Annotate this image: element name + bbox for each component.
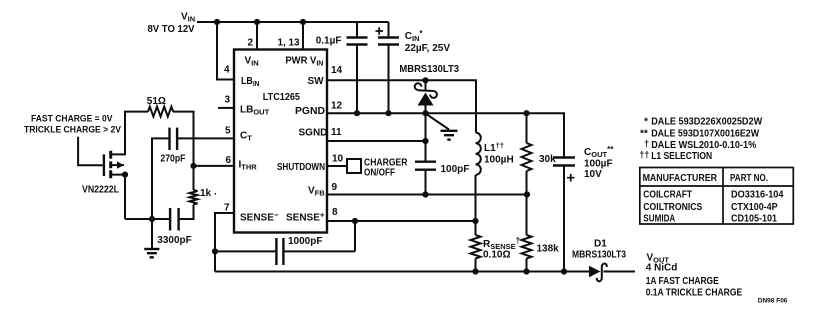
svg-text:100pF: 100pF — [441, 164, 470, 175]
svg-text:ON/OFF: ON/OFF — [364, 167, 395, 178]
svg-text:MBRS130LT3: MBRS130LT3 — [572, 250, 626, 261]
svg-text:4 NiCd: 4 NiCd — [646, 263, 678, 274]
svg-text:138k: 138k — [537, 244, 560, 255]
svg-text:SGND: SGND — [299, 128, 328, 139]
svg-text:SENSE+: SENSE+ — [286, 211, 325, 224]
svg-text:6: 6 — [226, 155, 232, 166]
svg-text:11: 11 — [331, 127, 342, 138]
svg-text:FAST CHARGE = 0V: FAST CHARGE = 0V — [31, 114, 113, 125]
svg-text:1A FAST CHARGE: 1A FAST CHARGE — [646, 276, 719, 287]
svg-text:1, 13: 1, 13 — [278, 38, 300, 49]
svg-text:22µF, 25V: 22µF, 25V — [405, 43, 451, 54]
svg-text:PART NO.: PART NO. — [730, 172, 768, 184]
svg-text:14: 14 — [331, 65, 343, 76]
svg-text:0.1A TRICKLE CHARGE: 0.1A TRICKLE CHARGE — [646, 288, 743, 299]
svg-text:1000pF: 1000pF — [288, 236, 322, 247]
svg-text:SENSE−: SENSE− — [240, 211, 279, 224]
svg-text:††: †† — [639, 149, 649, 159]
svg-text:7: 7 — [224, 203, 230, 214]
svg-text:SHUTDOWN: SHUTDOWN — [277, 162, 325, 173]
svg-text:DALE 593D226X0025D2W: DALE 593D226X0025D2W — [651, 116, 762, 128]
svg-text:COILTRONICS: COILTRONICS — [643, 201, 702, 213]
svg-text:VN2222L: VN2222L — [82, 185, 119, 196]
svg-text:10: 10 — [332, 154, 344, 165]
svg-text:PGND: PGND — [295, 106, 325, 117]
svg-text:†: † — [644, 139, 649, 149]
svg-text:CTX100-4P: CTX100-4P — [731, 201, 778, 213]
svg-text:*: * — [644, 117, 648, 128]
svg-text:5: 5 — [225, 126, 231, 137]
svg-text:0.1µF: 0.1µF — [316, 36, 342, 47]
svg-text:3: 3 — [225, 95, 231, 106]
svg-text:100µF: 100µF — [584, 159, 613, 170]
svg-text:SUMIDA: SUMIDA — [643, 213, 675, 225]
svg-text:1k: 1k — [200, 188, 212, 199]
svg-text:TRICKLE CHARGE > 2V: TRICKLE CHARGE > 2V — [24, 125, 122, 136]
svg-text:L1 SELECTION: L1 SELECTION — [651, 150, 712, 162]
svg-text:MBRS130LT3: MBRS130LT3 — [399, 64, 459, 75]
svg-text:.: . — [214, 187, 217, 198]
svg-text:3300pF: 3300pF — [157, 235, 191, 246]
svg-text:30k: 30k — [539, 154, 556, 165]
svg-text:DN98 F06: DN98 F06 — [758, 298, 788, 305]
svg-text:12: 12 — [331, 101, 343, 112]
svg-text:0.10Ω: 0.10Ω — [483, 250, 510, 261]
svg-text:LTC1265: LTC1265 — [263, 92, 301, 103]
svg-text:2: 2 — [248, 38, 254, 49]
svg-text:270pF: 270pF — [160, 154, 185, 165]
svg-text:DO3316-104: DO3316-104 — [731, 188, 784, 200]
svg-text:8V TO 12V: 8V TO 12V — [148, 24, 195, 35]
svg-text:10V: 10V — [584, 169, 602, 180]
svg-text:9: 9 — [332, 182, 338, 193]
svg-text:MANUFACTURER: MANUFACTURER — [643, 172, 718, 184]
svg-text:100µH: 100µH — [484, 155, 514, 166]
svg-text:SW: SW — [308, 76, 325, 87]
svg-text:D1: D1 — [594, 239, 607, 250]
svg-text:51Ω: 51Ω — [147, 96, 166, 107]
svg-text:CD105-101: CD105-101 — [731, 213, 777, 225]
svg-text:8: 8 — [332, 207, 338, 218]
svg-text:DALE 593D107X0016E2W: DALE 593D107X0016E2W — [651, 127, 759, 139]
svg-text:4: 4 — [224, 65, 230, 76]
svg-text:COILCRAFT: COILCRAFT — [643, 188, 692, 200]
